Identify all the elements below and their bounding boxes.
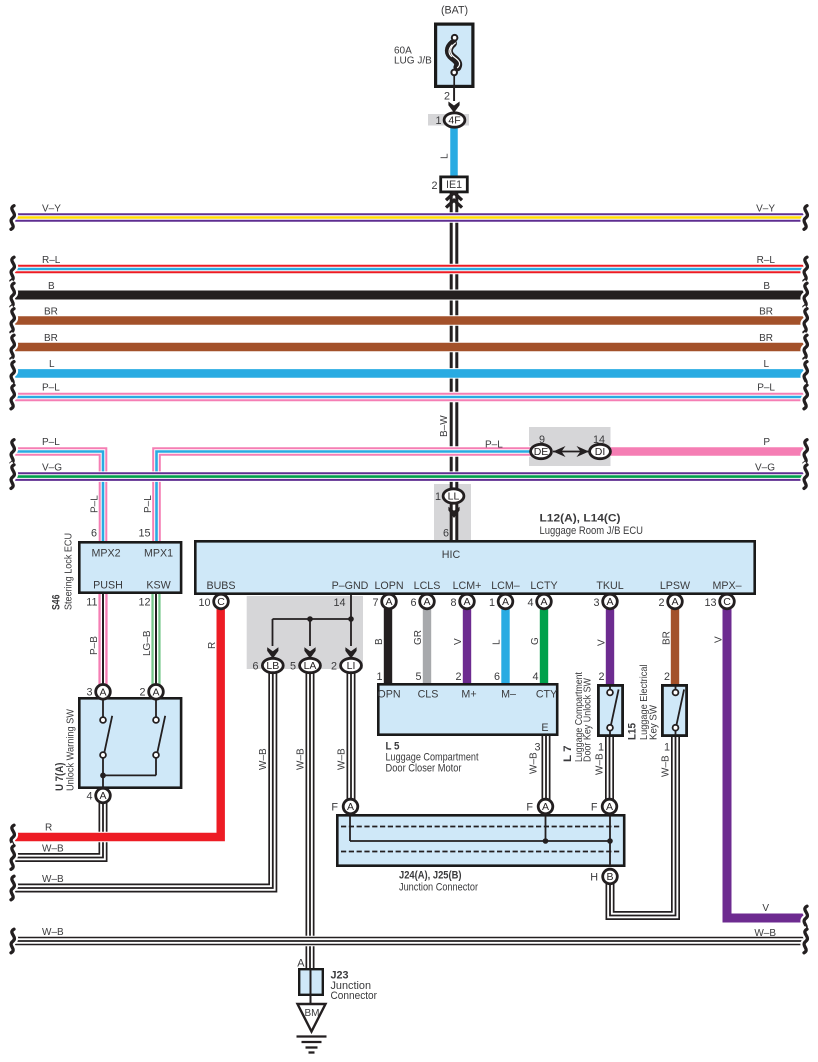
J24 internal bus line: [350, 816, 610, 867]
wire L (blue) 4F to IE1: [450, 127, 458, 177]
wire W-B from U7 pin 4 to left edge: [13, 803, 103, 858]
svg-text:W–B: W–B: [754, 928, 776, 939]
svg-text:P–L: P–L: [485, 440, 503, 451]
svg-text:V: V: [714, 636, 725, 643]
svg-text:R: R: [207, 642, 218, 649]
J24 dashed line 2: [341, 851, 621, 853]
svg-text:A: A: [297, 958, 305, 970]
svg-text:LA: LA: [304, 660, 317, 672]
svg-text:4: 4: [532, 671, 538, 683]
junction connector box J23: [299, 969, 323, 995]
svg-text:LOPN: LOPN: [374, 580, 403, 592]
pin oval A U7 pin2: [149, 685, 164, 700]
pin oval A TKUL: [603, 594, 618, 609]
svg-text:B: B: [48, 281, 55, 292]
BOXES: [79, 24, 754, 995]
wire W-B from LA to J23: [305, 673, 316, 968]
break symbol R-L right: [804, 257, 807, 281]
gray box around DE/DI connectors: [529, 427, 611, 466]
svg-text:P–L: P–L: [42, 437, 60, 448]
L7 switch contacts: [607, 685, 619, 735]
svg-text:A: A: [606, 596, 613, 608]
svg-text:H: H: [590, 872, 598, 884]
svg-text:8: 8: [450, 597, 456, 609]
bus wire BR 2: [13, 342, 805, 353]
connector oval LI: [341, 658, 362, 672]
svg-text:L15: L15: [627, 723, 639, 740]
gray box around P-GND branch to LB/LA/LI: [247, 596, 363, 669]
svg-text:LPSW: LPSW: [660, 580, 691, 592]
svg-text:14: 14: [593, 434, 605, 446]
svg-text:BR: BR: [44, 333, 58, 344]
svg-text:2: 2: [455, 671, 461, 683]
arrow below LL: [448, 507, 459, 518]
break symbol W-B1 left: [11, 846, 14, 870]
svg-text:BR: BR: [44, 307, 58, 318]
svg-text:6: 6: [252, 661, 258, 673]
connector oval LA: [300, 658, 321, 672]
bus wire BR 1: [13, 315, 805, 326]
svg-text:2: 2: [331, 661, 337, 673]
svg-text:Junction Connector: Junction Connector: [399, 882, 478, 894]
wire P from DI to right edge: [611, 446, 806, 457]
wire W-B from LI to junction connector F: [346, 673, 357, 800]
pin oval A LCTY: [537, 594, 552, 609]
svg-text:1: 1: [598, 742, 604, 754]
svg-text:4: 4: [527, 597, 533, 609]
svg-text:A: A: [152, 687, 159, 699]
break symbol P-L2 left: [11, 440, 14, 464]
connector oval 4F: [444, 113, 465, 127]
svg-text:L: L: [492, 639, 503, 645]
svg-text:10: 10: [198, 597, 210, 609]
svg-text:P–L: P–L: [90, 495, 101, 513]
J24 dashed line 1: [341, 826, 621, 828]
arrow into LI: [345, 647, 356, 658]
svg-text:R–L: R–L: [757, 255, 776, 266]
svg-text:1: 1: [435, 491, 441, 503]
arrows between DE and DI: [553, 446, 589, 457]
svg-text:MPX1: MPX1: [144, 548, 173, 560]
wire L LCM- to L5 M-: [501, 609, 509, 684]
arrow into LB: [267, 647, 278, 658]
svg-text:W–B: W–B: [258, 748, 269, 770]
J23 internal wire: [310, 969, 312, 1004]
arrow into LA: [304, 647, 315, 658]
break symbol BR1 left: [11, 309, 14, 333]
svg-text:BR: BR: [759, 307, 773, 318]
svg-text:P–GND: P–GND: [332, 580, 369, 592]
pin oval A U7 pin3: [96, 685, 111, 700]
pin oval A J24 F3: [602, 799, 617, 814]
connector oval LB: [262, 658, 283, 672]
break symbol V-Y right: [804, 206, 807, 230]
wire stub fuse element to box edge: [453, 74, 455, 101]
INTERNALS: [100, 35, 684, 1053]
break symbol L right: [804, 362, 807, 386]
break symbol P-L1 left: [11, 385, 14, 409]
svg-text:A: A: [347, 801, 354, 813]
pin oval C MPX-: [720, 594, 735, 609]
svg-text:PUSH: PUSH: [93, 580, 123, 592]
svg-text:Key SW: Key SW: [649, 705, 660, 740]
svg-text:DI: DI: [595, 446, 606, 458]
fuse box 60A LUG J/B: [436, 24, 473, 86]
svg-text:P–L: P–L: [42, 383, 60, 394]
junction dot P-GND branch 2: [348, 616, 354, 622]
bus wire R-L: [13, 264, 805, 275]
svg-text:6: 6: [494, 671, 500, 683]
gray band behind connector LL down to ECU: [434, 484, 471, 540]
svg-text:9: 9: [539, 434, 545, 446]
svg-text:P: P: [763, 437, 770, 448]
svg-text:LCM–: LCM–: [491, 580, 520, 592]
svg-text:CLS: CLS: [418, 689, 439, 701]
svg-text:F: F: [526, 802, 533, 814]
svg-text:BUBS: BUBS: [206, 580, 235, 592]
svg-text:L: L: [763, 359, 769, 370]
fuse symbol in LUG J/B: [449, 35, 460, 75]
svg-text:A: A: [671, 596, 678, 608]
break symbol BR2 right: [804, 335, 807, 359]
svg-text:IE1: IE1: [446, 179, 462, 191]
svg-text:F: F: [591, 802, 598, 814]
svg-text:LI: LI: [347, 660, 356, 672]
svg-text:J24(A), J25(B): J24(A), J25(B): [399, 870, 462, 882]
pin oval A J24 F1: [343, 799, 358, 814]
ground symbol: [297, 1037, 327, 1053]
svg-text:W–B: W–B: [661, 755, 672, 777]
svg-text:L12(A), L14(C): L12(A), L14(C): [540, 513, 621, 525]
pin oval A LCM+: [460, 594, 475, 609]
svg-text:S46: S46: [51, 595, 63, 611]
break symbol R-L left: [11, 257, 14, 281]
L15 switch contacts: [673, 685, 685, 735]
svg-text:Steering Lock ECU: Steering Lock ECU: [64, 533, 75, 610]
ECU box S46: [79, 542, 181, 592]
motor box L5: [378, 684, 557, 734]
svg-text:7: 7: [372, 597, 378, 609]
svg-text:LUG J/B: LUG J/B: [394, 56, 432, 67]
wire R from BUBS to left edge: [13, 609, 221, 838]
svg-text:4F: 4F: [448, 115, 460, 127]
svg-text:W–B: W–B: [529, 752, 540, 774]
pin oval A LPSW: [668, 594, 683, 609]
junction dot P-GND branch 1: [307, 616, 313, 622]
chevron arrows above bus crossing: [446, 193, 462, 208]
gray band behind connector 4F: [428, 114, 469, 126]
wire B LOPN to L5 OPN: [384, 609, 392, 684]
connector oval DI: [590, 444, 611, 458]
svg-text:B–W: B–W: [439, 415, 450, 437]
connector box IE1: [441, 177, 468, 192]
svg-text:2: 2: [598, 671, 604, 683]
wire V LCM+ to L5 M+: [463, 609, 471, 684]
wire fuse to 4F: [453, 75, 455, 101]
pin oval C BUBS: [214, 594, 229, 609]
bus wire B: [13, 290, 805, 301]
svg-text:W–B: W–B: [296, 748, 307, 770]
svg-text:Door Closer Motor: Door Closer Motor: [386, 763, 462, 775]
svg-text:P–B: P–B: [89, 636, 100, 655]
ground triangle BM: [298, 1004, 326, 1032]
svg-text:DE: DE: [534, 446, 549, 458]
svg-text:3: 3: [86, 687, 92, 699]
U7 junction dot: [100, 773, 106, 779]
wire GR LCLS to L5 CLS: [423, 609, 431, 684]
break symbol L left: [11, 362, 14, 386]
svg-text:E: E: [541, 722, 548, 734]
svg-text:Unlock Warning SW: Unlock Warning SW: [66, 709, 77, 791]
J24 junction dot 1: [543, 838, 549, 844]
svg-text:2: 2: [139, 687, 145, 699]
U7 switch 2: [103, 698, 165, 775]
svg-text:V–Y: V–Y: [42, 204, 61, 215]
break symbol P right: [804, 440, 807, 464]
svg-text:2: 2: [658, 597, 664, 609]
svg-text:6: 6: [91, 528, 97, 540]
svg-text:1: 1: [489, 597, 495, 609]
break symbol P-L1 right: [804, 385, 807, 409]
svg-text:LCLS: LCLS: [414, 580, 441, 592]
svg-text:Door Key Unlock SW: Door Key Unlock SW: [583, 678, 594, 762]
svg-text:KSW: KSW: [146, 580, 171, 592]
svg-text:V–G: V–G: [755, 463, 775, 474]
svg-text:1: 1: [376, 671, 382, 683]
svg-text:13: 13: [704, 597, 716, 609]
svg-text:2: 2: [431, 180, 437, 192]
svg-text:V: V: [453, 638, 464, 645]
svg-text:6: 6: [410, 597, 416, 609]
svg-text:W–B: W–B: [42, 927, 64, 938]
svg-text:L 7: L 7: [562, 746, 574, 763]
svg-text:LB: LB: [266, 660, 279, 672]
wire BR LPSW to L15: [671, 609, 679, 685]
svg-text:M–: M–: [501, 689, 516, 701]
svg-text:5: 5: [290, 661, 296, 673]
svg-text:3: 3: [593, 597, 599, 609]
break symbol BR2 left: [11, 335, 14, 359]
wire W-B L5 pin 3 to junction connector F: [541, 736, 552, 800]
junction connector box J24/J25: [337, 815, 624, 865]
svg-text:Connector: Connector: [331, 990, 378, 1002]
svg-text:M+: M+: [461, 689, 476, 701]
svg-text:3: 3: [534, 742, 540, 754]
svg-text:G: G: [530, 637, 541, 645]
svg-text:2: 2: [664, 671, 670, 683]
svg-text:V: V: [762, 903, 769, 914]
wire G LCTY to L5 CTY: [540, 609, 548, 684]
wire B-W vertical IE1 to LL to ECU pin 6: [450, 193, 459, 489]
svg-text:B: B: [763, 281, 770, 292]
svg-text:C: C: [217, 596, 225, 608]
wire W-B L7 pin 1 to junction connector F: [604, 737, 615, 800]
svg-text:A: A: [542, 801, 549, 813]
svg-text:A: A: [463, 596, 470, 608]
svg-text:A: A: [606, 801, 613, 813]
svg-text:B: B: [606, 871, 613, 883]
svg-text:LCM+: LCM+: [453, 580, 482, 592]
J24 junction dot 2: [607, 838, 613, 844]
svg-text:W–B: W–B: [42, 874, 64, 885]
pin oval A U7 pin4: [96, 788, 111, 803]
svg-text:W–B: W–B: [595, 753, 606, 775]
break symbol R left: [11, 825, 14, 849]
svg-text:15: 15: [138, 528, 150, 540]
svg-text:MPX2: MPX2: [91, 548, 120, 560]
switch box U7 Unlock Warning SW: [79, 698, 181, 787]
switch box L7: [598, 685, 622, 735]
svg-text:W–B: W–B: [42, 844, 64, 855]
svg-text:V–Y: V–Y: [756, 204, 775, 215]
switch box L15: [662, 685, 686, 735]
svg-text:C: C: [723, 596, 731, 608]
bus wire W-B bottom: [13, 936, 805, 947]
wire W-B from LB to left edge: [13, 673, 273, 888]
svg-text:GR: GR: [413, 630, 424, 645]
svg-text:U 7(A): U 7(A): [54, 762, 66, 791]
svg-text:1: 1: [435, 115, 441, 127]
pin oval A LOPN: [382, 594, 397, 609]
svg-text:P–L: P–L: [757, 383, 775, 394]
wire W-B L15 pin 1 to junction connector H: [610, 737, 676, 916]
pin oval A LCM-: [498, 594, 513, 609]
svg-text:V: V: [597, 639, 608, 646]
bus wire P-L 1: [13, 392, 805, 403]
svg-text:Luggage Room J/B ECU: Luggage Room J/B ECU: [540, 525, 644, 537]
break symbol W-B2 left: [11, 876, 14, 900]
connector oval LL: [443, 489, 464, 503]
svg-text:L: L: [49, 359, 55, 370]
svg-text:L: L: [440, 153, 451, 159]
arrow into 4F: [448, 102, 459, 113]
svg-text:BR: BR: [759, 333, 773, 344]
svg-text:B: B: [374, 638, 385, 645]
bus wire L: [13, 368, 805, 379]
svg-text:OPN: OPN: [377, 689, 400, 701]
svg-text:2: 2: [444, 91, 450, 103]
ECU box HIC L12/L14: [195, 541, 754, 593]
connector oval DE: [531, 444, 552, 458]
break symbol BR1 right: [804, 309, 807, 333]
svg-text:F: F: [331, 802, 338, 814]
break symbol V-Y left: [11, 206, 14, 230]
pin oval B J24 H: [603, 869, 618, 884]
svg-text:HIC: HIC: [442, 549, 461, 561]
svg-text:LG–B: LG–B: [142, 630, 153, 656]
svg-text:R–L: R–L: [42, 255, 61, 266]
svg-text:1: 1: [664, 742, 670, 754]
svg-text:5: 5: [415, 671, 421, 683]
break symbol V-G left: [11, 465, 14, 489]
wire LG-B S46 KSW to U7 pin 2: [151, 594, 160, 685]
svg-text:CTY: CTY: [536, 689, 557, 701]
pin oval A J24 F2: [538, 799, 553, 814]
svg-text:A: A: [502, 596, 509, 608]
U7 switch 1: [100, 698, 112, 789]
svg-text:A: A: [385, 596, 392, 608]
svg-text:14: 14: [333, 597, 345, 609]
svg-text:11: 11: [86, 597, 97, 609]
svg-text:6: 6: [443, 528, 449, 540]
pin oval A LCLS: [420, 594, 435, 609]
svg-text:A: A: [99, 687, 106, 699]
break symbol V right: [804, 906, 807, 930]
svg-text:MPX–: MPX–: [712, 580, 741, 592]
wire P-L 2 left segment to S46 MPX2: [13, 452, 103, 542]
svg-text:TKUL: TKUL: [596, 580, 623, 592]
svg-text:BM: BM: [305, 1008, 320, 1019]
svg-text:A: A: [540, 596, 547, 608]
svg-text:4: 4: [86, 791, 92, 803]
svg-text:BR: BR: [662, 631, 673, 645]
svg-text:(BAT): (BAT): [441, 5, 468, 17]
svg-text:A: A: [423, 596, 430, 608]
break symbol W-B bus right: [804, 929, 807, 953]
svg-text:P–L: P–L: [143, 495, 154, 513]
svg-text:R: R: [45, 823, 52, 834]
P-GND branch wiring: [273, 594, 352, 646]
svg-text:A: A: [99, 790, 106, 802]
break symbol B right: [804, 283, 807, 307]
break symbol B left: [11, 283, 14, 307]
wire V MPX- to right edge: [727, 609, 805, 919]
svg-text:W–B: W–B: [337, 748, 348, 770]
break symbol V-G right: [804, 465, 807, 489]
svg-text:LCTY: LCTY: [530, 580, 557, 592]
wire V TKUL to L7: [606, 609, 614, 685]
svg-text:LL: LL: [448, 491, 460, 503]
wire P-L 2 right segment to DE and S46 MPX1: [157, 452, 531, 542]
break symbol W-B bus left: [11, 929, 14, 953]
wire P-B S46 PUSH to U7 pin 3: [98, 594, 107, 685]
bus wire V-G: [13, 471, 805, 482]
bus wire V-Y: [13, 212, 805, 223]
GRAYS: [247, 114, 611, 669]
svg-text:V–G: V–G: [42, 463, 62, 474]
svg-text:12: 12: [138, 597, 150, 609]
